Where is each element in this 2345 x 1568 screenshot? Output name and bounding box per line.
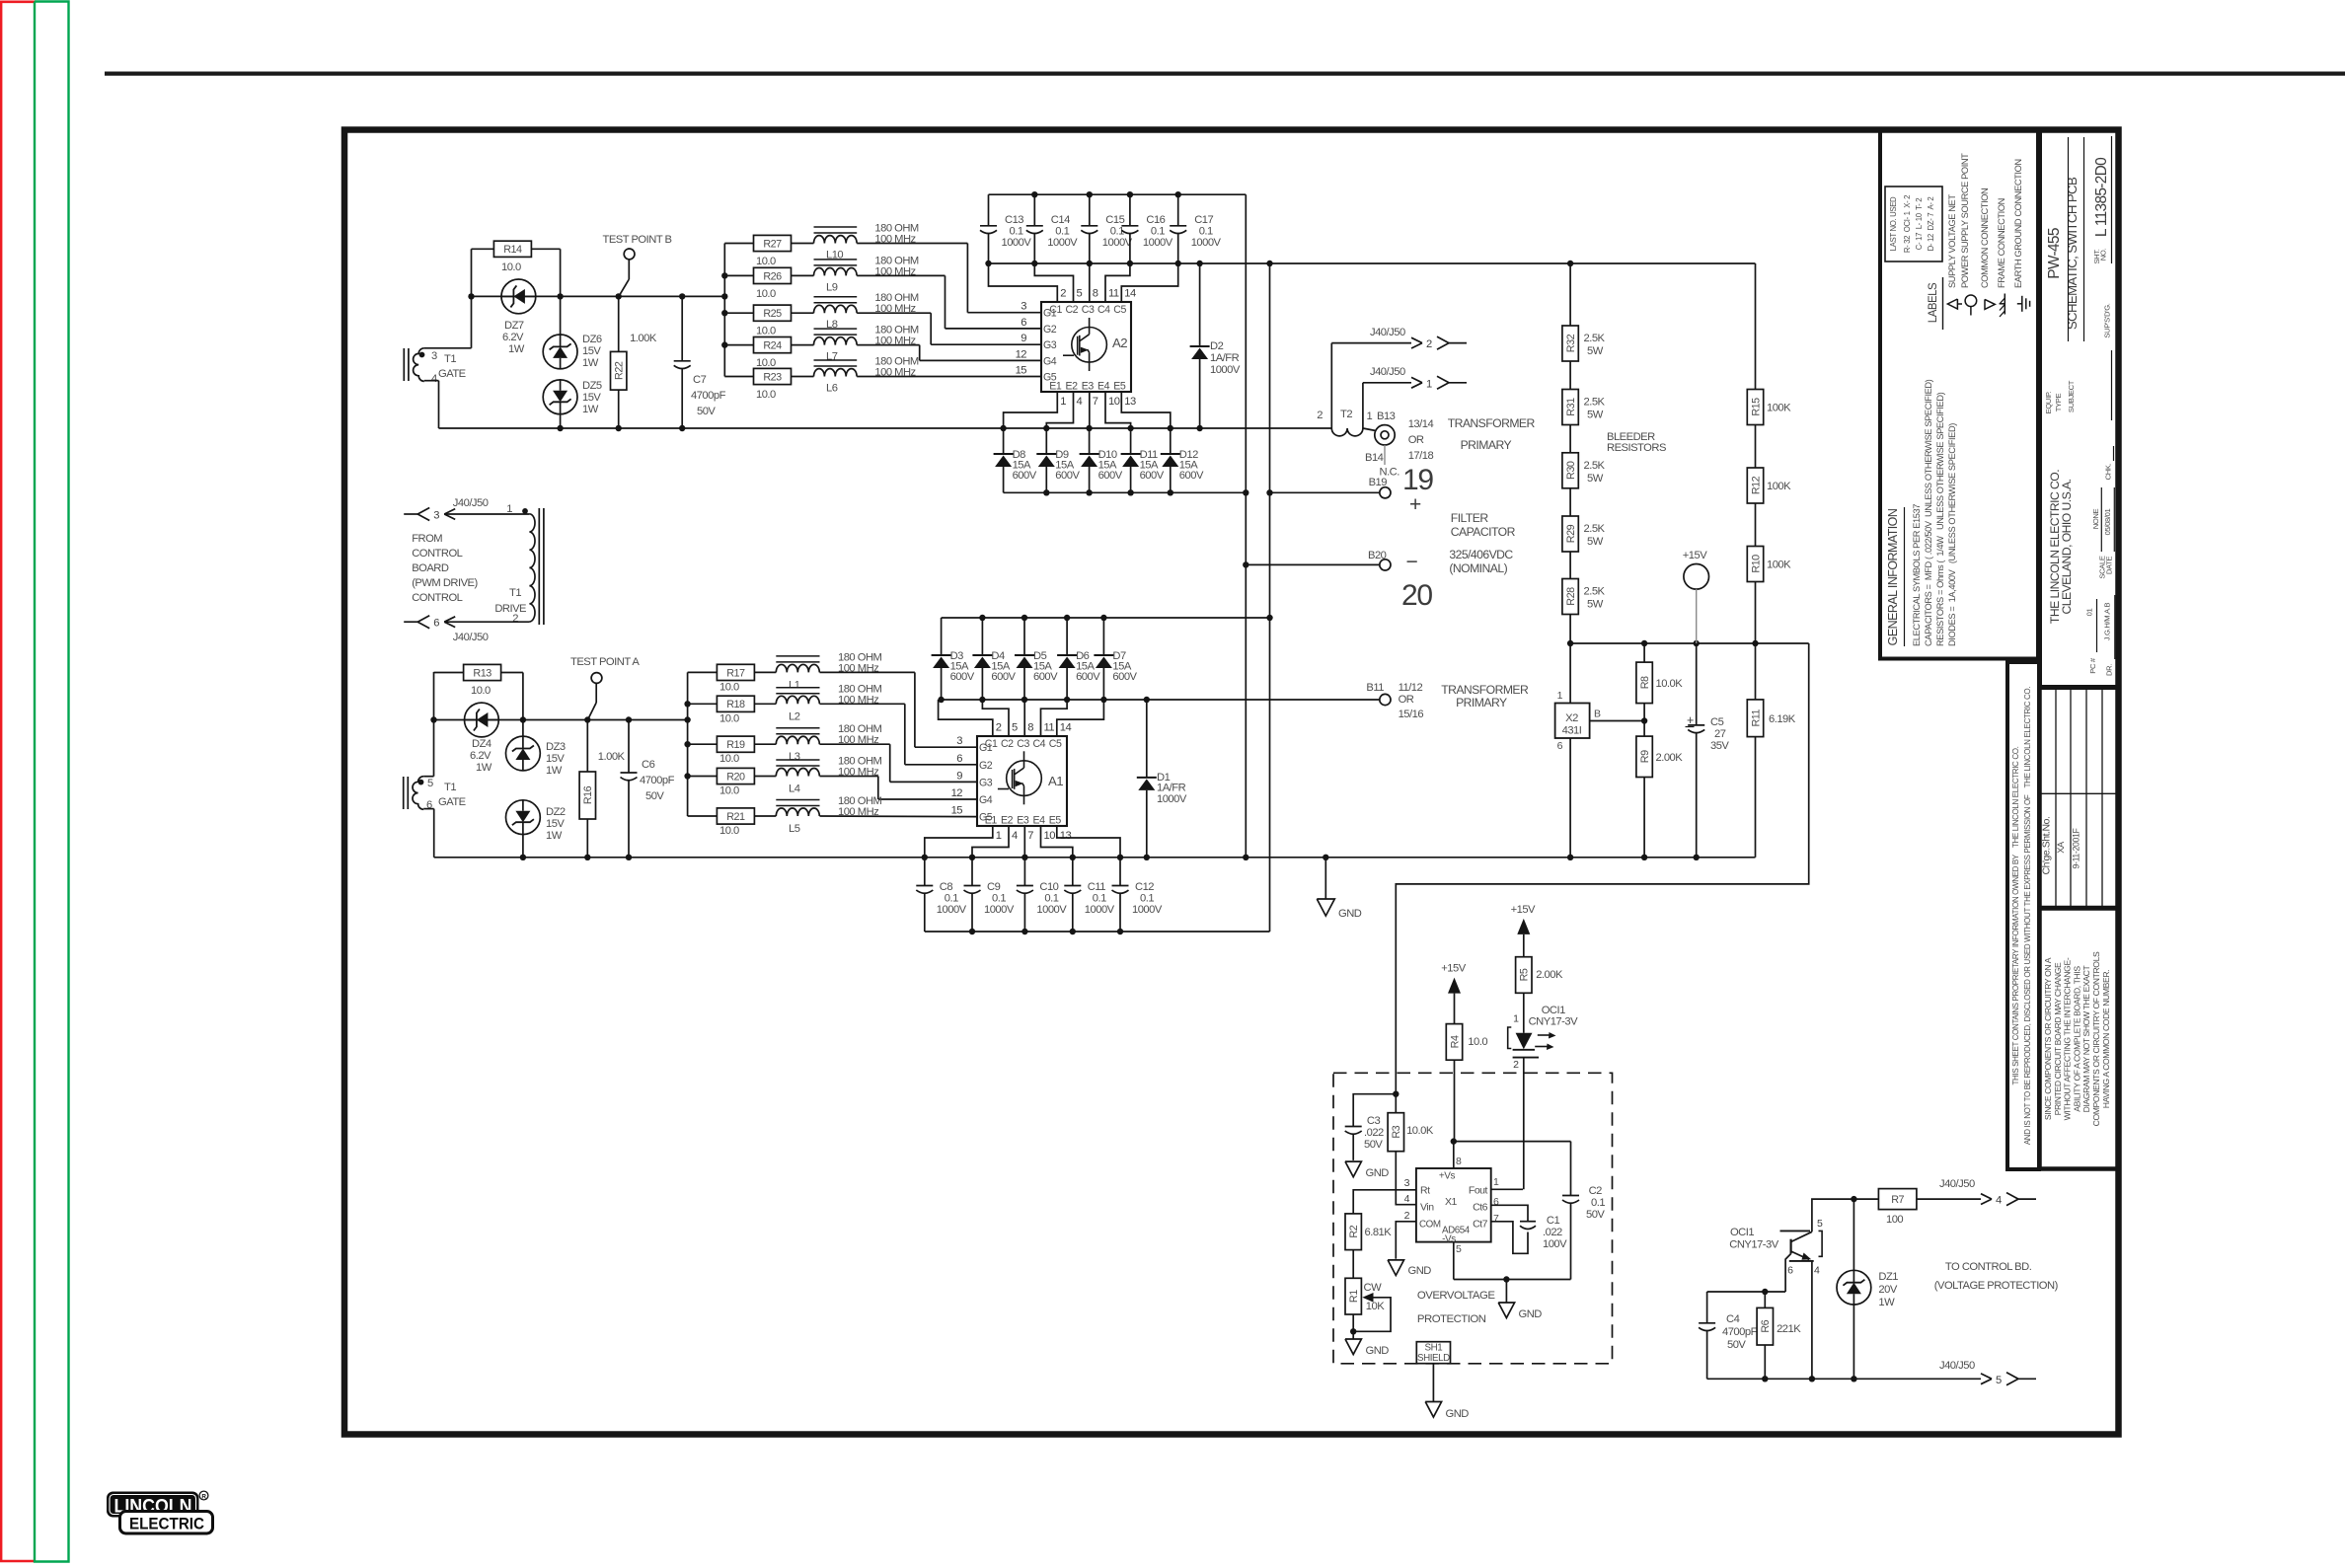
svg-text:.022: .022 xyxy=(1543,1227,1562,1238)
svg-text:15V: 15V xyxy=(582,392,601,404)
capacitor C11 xyxy=(1064,858,1114,932)
svg-text:R4: R4 xyxy=(1449,1035,1461,1048)
diode D3 xyxy=(932,618,975,700)
svg-text:G4: G4 xyxy=(1043,355,1057,367)
optocoupler OCI1 phototransistor xyxy=(1729,1218,1823,1277)
svg-text:C8: C8 xyxy=(940,881,953,893)
svg-text:SUBJECT: SUBJECT xyxy=(2067,380,2076,412)
resistor R26 xyxy=(724,267,791,300)
svg-text:5: 5 xyxy=(427,778,433,789)
svg-text:600V: 600V xyxy=(1140,470,1165,482)
svg-text:100K: 100K xyxy=(1767,481,1791,492)
svg-text:DZ6: DZ6 xyxy=(582,334,602,345)
svg-text:5: 5 xyxy=(1817,1218,1823,1230)
svg-text:4700pF: 4700pF xyxy=(1722,1326,1758,1338)
inductor L7 xyxy=(792,325,919,363)
svg-text:20V: 20V xyxy=(1878,1284,1897,1296)
svg-text:R16: R16 xyxy=(582,785,594,804)
svg-text:L 11385-2D0: L 11385-2D0 xyxy=(2093,157,2110,237)
svg-text:GND: GND xyxy=(1519,1308,1543,1320)
interchangeability notice box xyxy=(2040,909,2119,1169)
resistor R31 xyxy=(1562,361,1606,425)
svg-text:100: 100 xyxy=(1886,1214,1903,1226)
svg-text:1A/FR: 1A/FR xyxy=(1210,352,1240,364)
svg-text:R2: R2 xyxy=(1348,1225,1360,1237)
svg-text:−: − xyxy=(1406,551,1418,573)
label transformer primary (lower) xyxy=(1399,682,1529,720)
label transformer primary (upper) xyxy=(1408,416,1536,462)
power source point +15V (C5 node) xyxy=(1683,550,1709,643)
svg-text:13/14: 13/14 xyxy=(1408,418,1434,430)
svg-text:10.0: 10.0 xyxy=(719,753,739,765)
svg-text:C14: C14 xyxy=(1051,214,1070,226)
svg-text:9: 9 xyxy=(956,770,962,782)
svg-text:CAPACITOR: CAPACITOR xyxy=(1451,525,1516,539)
resistor R7 xyxy=(1878,1189,1917,1226)
inductor L3 xyxy=(754,723,881,763)
svg-text:50V: 50V xyxy=(1727,1339,1746,1351)
svg-text:AND IS NOT TO BE REPRODUCED, D: AND IS NOT TO BE REPRODUCED, DISCLOSED O… xyxy=(2023,687,2032,1145)
capacitor C5 xyxy=(1686,643,1730,858)
resistor R16 xyxy=(579,751,625,819)
revision table xyxy=(2040,688,2119,909)
wire OCI1 collector to R7 line xyxy=(1812,1196,1879,1232)
svg-text:6: 6 xyxy=(1021,317,1026,329)
capacitor C4 xyxy=(1699,1292,1757,1379)
resistor R25 xyxy=(724,305,791,337)
svg-text:J40/J50: J40/J50 xyxy=(1370,366,1405,378)
legend symbol common connection xyxy=(1985,299,1995,309)
current transformer T2 xyxy=(1317,409,1372,436)
svg-text:R11: R11 xyxy=(1750,709,1762,727)
svg-text:PROTECTION: PROTECTION xyxy=(1417,1313,1486,1325)
svg-text:C4: C4 xyxy=(1033,738,1046,750)
wire LED cathode to Fout xyxy=(1523,1058,1525,1190)
ground (X1 -Vs) xyxy=(1498,1280,1542,1321)
svg-text:R18: R18 xyxy=(726,699,745,710)
svg-text:Ch'ge.Sht.No.: Ch'ge.Sht.No. xyxy=(2041,817,2053,875)
svg-text:B: B xyxy=(1594,709,1601,720)
wire T1-4 to emitter rail xyxy=(424,381,439,428)
green registration bar xyxy=(35,2,69,1562)
svg-text:C6: C6 xyxy=(642,759,655,771)
svg-text:9: 9 xyxy=(1021,333,1026,344)
svg-text:2.5K: 2.5K xyxy=(1584,523,1606,535)
top gate rail xyxy=(468,293,727,299)
capacitor C10 xyxy=(1017,858,1067,932)
svg-text:1: 1 xyxy=(996,830,1002,842)
svg-text:PRIMARY: PRIMARY xyxy=(1456,696,1507,709)
resistor R29 xyxy=(1562,488,1606,552)
svg-text:15V: 15V xyxy=(582,345,601,357)
svg-text:L3: L3 xyxy=(789,751,800,763)
svg-text:10: 10 xyxy=(1108,396,1120,408)
svg-text:R: R xyxy=(201,1494,206,1501)
connector J40/J50 pin 6 xyxy=(404,616,489,643)
svg-text:R8: R8 xyxy=(1639,676,1651,689)
svg-text:TRANSFORMER: TRANSFORMER xyxy=(1448,416,1536,430)
gate resistor bus (upper) xyxy=(721,244,727,377)
svg-text:05/08/01: 05/08/01 xyxy=(2103,508,2112,535)
svg-text:11: 11 xyxy=(1044,722,1055,734)
svg-text:DRIVE: DRIVE xyxy=(494,603,526,615)
svg-text:ABILITY OF A COMPLETE BOARD, T: ABILITY OF A COMPLETE BOARD, THIS xyxy=(2072,966,2081,1112)
optocoupler OCI1 LED xyxy=(1508,993,1578,1071)
wire R14 left lead xyxy=(472,249,494,296)
svg-text:B20: B20 xyxy=(1368,550,1387,561)
regulator node line xyxy=(1567,640,1809,646)
terminal SH1 shield xyxy=(1416,1342,1450,1364)
wire D6 to A1 pin C4 xyxy=(1041,700,1068,736)
wire L7 to A2 gate xyxy=(857,345,1041,361)
ground (X1 COM) xyxy=(1388,1260,1431,1277)
wire X1 Fout to optocoupler xyxy=(1491,1188,1523,1190)
svg-text:600V: 600V xyxy=(1179,470,1204,482)
IGBT module A2 xyxy=(1016,288,1136,409)
diode D12 xyxy=(1161,428,1204,492)
svg-text:R7: R7 xyxy=(1891,1194,1904,1206)
svg-text:2.00K: 2.00K xyxy=(1656,752,1684,764)
svg-text:R9: R9 xyxy=(1639,750,1651,763)
svg-text:1000V: 1000V xyxy=(1085,904,1115,916)
inductor L10 xyxy=(792,223,919,261)
diode D7 xyxy=(1094,618,1137,700)
svg-text:SINCE COMPONENTS OR CIRCUITRY: SINCE COMPONENTS OR CIRCUITRY ON A xyxy=(2043,957,2053,1120)
resistor R13 xyxy=(464,664,501,697)
svg-text:C5: C5 xyxy=(1113,304,1126,316)
diode D4 xyxy=(972,618,1016,700)
svg-text:L9: L9 xyxy=(826,281,838,293)
legend symbol power supply source point xyxy=(1965,295,1977,316)
svg-text:J40/J50: J40/J50 xyxy=(1370,327,1405,338)
collector rail (top module) xyxy=(985,261,1755,266)
svg-text:E4: E4 xyxy=(1033,815,1046,827)
resistor R3 xyxy=(1388,1094,1403,1152)
svg-text:4700pF: 4700pF xyxy=(640,775,675,786)
wire A2 pin E4 to emitter rail xyxy=(1105,392,1131,428)
svg-text:2: 2 xyxy=(1513,1059,1519,1071)
svg-text:A2: A2 xyxy=(1112,336,1127,350)
svg-text:C1: C1 xyxy=(1547,1215,1560,1227)
svg-text:GND: GND xyxy=(1408,1265,1432,1277)
svg-text:RESISTORS = Ohms ( 1/4W UNL: RESISTORS = Ohms ( 1/4W UNLESS OTHERWISE… xyxy=(1935,392,1945,646)
svg-text:15/16: 15/16 xyxy=(1399,709,1424,720)
connector J40/J50 pin 3 xyxy=(404,497,489,522)
IGBT module A1 xyxy=(951,722,1072,843)
svg-text:LAST NO. USED: LAST NO. USED xyxy=(1889,196,1898,251)
capacitor C1 (Ct) xyxy=(1491,1205,1567,1253)
svg-text:10.0: 10.0 xyxy=(719,712,739,724)
wire X1 COM to ground xyxy=(1396,1222,1416,1259)
svg-text:12: 12 xyxy=(951,787,963,799)
svg-text:R13: R13 xyxy=(473,667,492,679)
svg-text:1A/FR: 1A/FR xyxy=(1157,783,1186,794)
svg-text:C- 17 L- 10 T- 2: C- 17 L- 10 T- 2 xyxy=(1915,198,1924,250)
svg-text:10.0: 10.0 xyxy=(719,681,739,693)
resistor R24 xyxy=(724,337,791,370)
svg-text:27: 27 xyxy=(1714,728,1726,740)
svg-text:J40/J50: J40/J50 xyxy=(453,632,489,643)
svg-text:R1: R1 xyxy=(1348,1290,1360,1303)
svg-text:50V: 50V xyxy=(645,790,664,802)
svg-text:1000V: 1000V xyxy=(1102,237,1133,249)
snubber cap top rail (node to V1) xyxy=(989,191,1247,197)
svg-text:0.1: 0.1 xyxy=(1199,226,1213,238)
svg-text:GATE: GATE xyxy=(438,368,466,380)
wire R6 node line xyxy=(1707,1289,1786,1295)
resistor R8 xyxy=(1636,643,1683,704)
wire L10 to A2 gate xyxy=(857,244,1041,313)
svg-text:10.0: 10.0 xyxy=(719,785,739,797)
svg-text:5W: 5W xyxy=(1587,345,1604,357)
lower gate rail xyxy=(430,716,691,722)
svg-text:DIAGRAM MAY NOT SHOW THE EXACT: DIAGRAM MAY NOT SHOW THE EXACT xyxy=(2081,965,2091,1113)
svg-text:1: 1 xyxy=(1367,411,1373,422)
svg-text:Vin: Vin xyxy=(1420,1202,1434,1214)
svg-text:R22: R22 xyxy=(614,361,626,380)
svg-text:G5: G5 xyxy=(1043,372,1057,384)
svg-text:1: 1 xyxy=(1493,1176,1499,1188)
svg-text:2: 2 xyxy=(1426,338,1432,350)
svg-text:1000V: 1000V xyxy=(1036,904,1067,916)
svg-text:17/18: 17/18 xyxy=(1408,450,1434,462)
title box xyxy=(2040,130,2119,688)
svg-text:1000V: 1000V xyxy=(1143,237,1173,249)
svg-text:10.0: 10.0 xyxy=(471,685,491,697)
svg-text:C10: C10 xyxy=(1039,881,1058,893)
zener DZ5 xyxy=(543,380,602,415)
svg-text:2: 2 xyxy=(1060,288,1066,300)
svg-text:15V: 15V xyxy=(546,818,565,830)
svg-text:600V: 600V xyxy=(1055,470,1080,482)
svg-text:1000V: 1000V xyxy=(1210,364,1241,376)
lower collector rail xyxy=(938,697,1150,703)
zener DZ1 xyxy=(1837,1199,1898,1379)
svg-text:600V: 600V xyxy=(1076,671,1100,683)
connector J40/J50 pin 2 xyxy=(1370,327,1467,350)
svg-text:2.00K: 2.00K xyxy=(1536,969,1563,981)
svg-text:10.0: 10.0 xyxy=(756,326,776,337)
snubber cap bottom rail (to V2) xyxy=(925,929,1270,934)
svg-text:10.0: 10.0 xyxy=(756,357,776,369)
svg-text:B13: B13 xyxy=(1377,411,1396,422)
svg-text:14: 14 xyxy=(1060,722,1072,734)
wire T1-5 riser xyxy=(423,672,433,777)
svg-text:SUPPLY VOLTAGE NET: SUPPLY VOLTAGE NET xyxy=(1947,194,1957,288)
wire T1-6 to ground rail xyxy=(423,809,434,858)
wire OCI1 emitter to bottom rail xyxy=(1811,1261,1813,1379)
svg-text:10.0: 10.0 xyxy=(719,825,739,837)
wire D4 to A1 pin C2 xyxy=(982,700,1009,736)
svg-text:L2: L2 xyxy=(789,710,800,722)
svg-text:6.2V: 6.2V xyxy=(470,750,492,762)
svg-text:+15V: +15V xyxy=(1683,550,1707,561)
svg-text:CW: CW xyxy=(1364,1282,1383,1294)
svg-text:WITHOUT AFFECTING THE INTERCHA: WITHOUT AFFECTING THE INTERCHANGE- xyxy=(2063,957,2073,1120)
svg-text:1000V: 1000V xyxy=(937,904,967,916)
svg-text:1.00K: 1.00K xyxy=(630,333,657,344)
svg-text:COMPONENTS OR CIRCUITRY OF CON: COMPONENTS OR CIRCUITRY OF CONTROLS xyxy=(2091,951,2101,1126)
svg-text:221K: 221K xyxy=(1777,1323,1801,1335)
wire L4 to A1 gate xyxy=(820,777,978,800)
wire feedback node to overvoltage input xyxy=(1393,643,1809,1097)
IGBT symbol inside A2 xyxy=(1063,318,1106,371)
svg-text:COM: COM xyxy=(1419,1220,1441,1231)
svg-text:LABELS: LABELS xyxy=(1928,282,1939,323)
capacitor C16 xyxy=(1121,194,1172,263)
svg-text:T2: T2 xyxy=(1340,409,1352,420)
svg-text:C16: C16 xyxy=(1146,214,1165,226)
svg-text:CNY17-3V: CNY17-3V xyxy=(1529,1016,1578,1028)
svg-text:C15: C15 xyxy=(1105,214,1124,226)
svg-text:2: 2 xyxy=(512,613,518,625)
wire R22 leads xyxy=(618,296,620,428)
resistor R22 xyxy=(611,333,657,390)
capacitor C14 xyxy=(1026,194,1078,263)
svg-text:R29: R29 xyxy=(1565,524,1577,543)
svg-text:TEST POINT A: TEST POINT A xyxy=(570,656,640,668)
svg-text:E3: E3 xyxy=(1017,815,1029,827)
svg-text:19: 19 xyxy=(1402,464,1433,496)
svg-text:4: 4 xyxy=(1077,396,1083,408)
svg-text:C5: C5 xyxy=(1049,738,1062,750)
terminal B19 (+) xyxy=(1270,464,1434,516)
diode D11 xyxy=(1121,428,1165,492)
capacitor C2 xyxy=(1562,1142,1605,1280)
svg-text:G5: G5 xyxy=(979,812,993,824)
svg-text:+15V: +15V xyxy=(1511,904,1536,916)
svg-text:600V: 600V xyxy=(991,671,1016,683)
svg-text:325/406VDC: 325/406VDC xyxy=(1449,548,1513,561)
wire L6 to A2 gate xyxy=(857,376,1041,378)
wire OCI1 base to R6 node xyxy=(1785,1254,1791,1293)
svg-text:0.1: 0.1 xyxy=(1055,226,1069,238)
labels legend xyxy=(1928,153,2023,330)
svg-text:GND: GND xyxy=(1338,908,1362,920)
svg-text:1.00K: 1.00K xyxy=(598,751,626,763)
wire C15 node to A2 pin C3 xyxy=(1089,263,1091,302)
resistor R27 xyxy=(724,235,791,267)
svg-text:600V: 600V xyxy=(950,671,975,683)
svg-text:OR: OR xyxy=(1399,694,1414,706)
supply +15V (R4) xyxy=(1441,963,1466,1024)
terminal B13 xyxy=(1363,411,1396,445)
top emitter rail xyxy=(439,425,1332,431)
svg-text:R20: R20 xyxy=(726,771,745,783)
inductor L1 xyxy=(754,651,881,691)
svg-text:E5: E5 xyxy=(1113,381,1126,393)
svg-text:5: 5 xyxy=(1012,722,1018,734)
svg-text:8: 8 xyxy=(1093,288,1098,300)
svg-text:DZ1: DZ1 xyxy=(1878,1271,1898,1283)
wire C14 node to A2 pin C2 xyxy=(1034,263,1073,302)
svg-text:Rt: Rt xyxy=(1420,1185,1430,1197)
resistor R15 xyxy=(1747,390,1791,425)
svg-text:2: 2 xyxy=(1404,1210,1410,1222)
svg-text:R32: R32 xyxy=(1565,334,1577,352)
svg-text:1: 1 xyxy=(1513,1013,1519,1025)
svg-text:C11: C11 xyxy=(1088,881,1105,893)
svg-text:R25: R25 xyxy=(763,308,782,320)
wire T2 to J40/J50-2 xyxy=(1331,343,1411,422)
svg-text:R31: R31 xyxy=(1565,398,1577,416)
inductor L5 xyxy=(754,795,881,835)
wire T2 to J40/J50-1 xyxy=(1363,383,1411,422)
wire X1 Rt to R2 xyxy=(1353,1190,1416,1214)
svg-text:4: 4 xyxy=(1814,1265,1820,1277)
svg-text:50V: 50V xyxy=(697,406,716,417)
svg-text:4: 4 xyxy=(1996,1195,2002,1207)
main schematic border frame xyxy=(344,130,2119,1435)
wire R14 right lead xyxy=(531,249,560,335)
svg-text:GND: GND xyxy=(1366,1345,1390,1357)
label filter capacitor xyxy=(1449,511,1515,575)
title box text xyxy=(2044,136,2115,676)
svg-text:CAPACITORS = MFD ( .022/50V: CAPACITORS = MFD ( .022/50V UNLESS OTHER… xyxy=(1924,379,1933,646)
svg-text:6: 6 xyxy=(433,618,439,630)
svg-text:NO.: NO. xyxy=(2099,249,2108,261)
svg-text:R17: R17 xyxy=(726,667,745,679)
svg-text:(NOMINAL): (NOMINAL) xyxy=(1449,561,1507,575)
svg-text:3: 3 xyxy=(956,735,962,747)
ground symbol (main) xyxy=(1317,858,1361,920)
svg-text:DZ2: DZ2 xyxy=(546,806,566,818)
top horizontal rule xyxy=(105,72,2345,76)
svg-text:14: 14 xyxy=(1124,288,1136,300)
svg-text:1000V: 1000V xyxy=(1002,237,1032,249)
svg-text:R6: R6 xyxy=(1760,1319,1772,1332)
inductor L9 xyxy=(792,255,919,293)
inductor L8 xyxy=(792,292,919,331)
wire J40/J50-3 to T1 drive pin 1 xyxy=(444,513,529,515)
test point B xyxy=(603,234,672,296)
svg-text:10.0: 10.0 xyxy=(756,256,776,267)
inductor L4 xyxy=(754,756,881,795)
svg-text:L6: L6 xyxy=(826,383,838,395)
svg-text:1000V: 1000V xyxy=(1047,237,1078,249)
svg-text:4: 4 xyxy=(1012,830,1018,842)
terminal stub B14 N.C. xyxy=(1365,445,1399,479)
capacitor C15 xyxy=(1081,194,1132,263)
resistor R1 (potentiometer) xyxy=(1345,1250,1385,1314)
svg-text:600V: 600V xyxy=(1033,671,1058,683)
supply +15V (R5) xyxy=(1511,904,1536,957)
svg-text:XA: XA xyxy=(2056,841,2066,854)
resistor R17 xyxy=(688,664,755,693)
wire DZ5 to emitter rail xyxy=(560,414,562,428)
diode D6 xyxy=(1057,618,1100,700)
svg-text:C4: C4 xyxy=(1726,1313,1740,1325)
svg-text:ELECTRICAL SYMBOLS PER E1537: ELECTRICAL SYMBOLS PER E1537 xyxy=(1912,504,1922,646)
svg-text:10.0K: 10.0K xyxy=(1406,1125,1434,1137)
svg-text:J40/J50: J40/J50 xyxy=(1939,1178,1975,1190)
label to control board xyxy=(1934,1261,2059,1292)
svg-text:3: 3 xyxy=(1404,1177,1410,1189)
svg-text:35V: 35V xyxy=(1710,740,1729,752)
wire B11 line xyxy=(1147,699,1380,701)
svg-text:EQUIP.: EQUIP. xyxy=(2044,391,2053,413)
wire R10 to node line xyxy=(1755,582,1757,644)
svg-text:OVERVOLTAGE: OVERVOLTAGE xyxy=(1417,1290,1495,1302)
wire T1-3 to gate rail xyxy=(424,296,472,347)
bus V2 (collector / B19 net) xyxy=(1266,263,1272,932)
capacitor C3 xyxy=(1345,1094,1397,1160)
capacitor C9 xyxy=(964,858,1015,932)
svg-text:E2: E2 xyxy=(1001,815,1014,827)
svg-text:C17: C17 xyxy=(1194,214,1213,226)
capacitor C6 xyxy=(621,720,675,858)
svg-text:C2: C2 xyxy=(1066,304,1079,316)
